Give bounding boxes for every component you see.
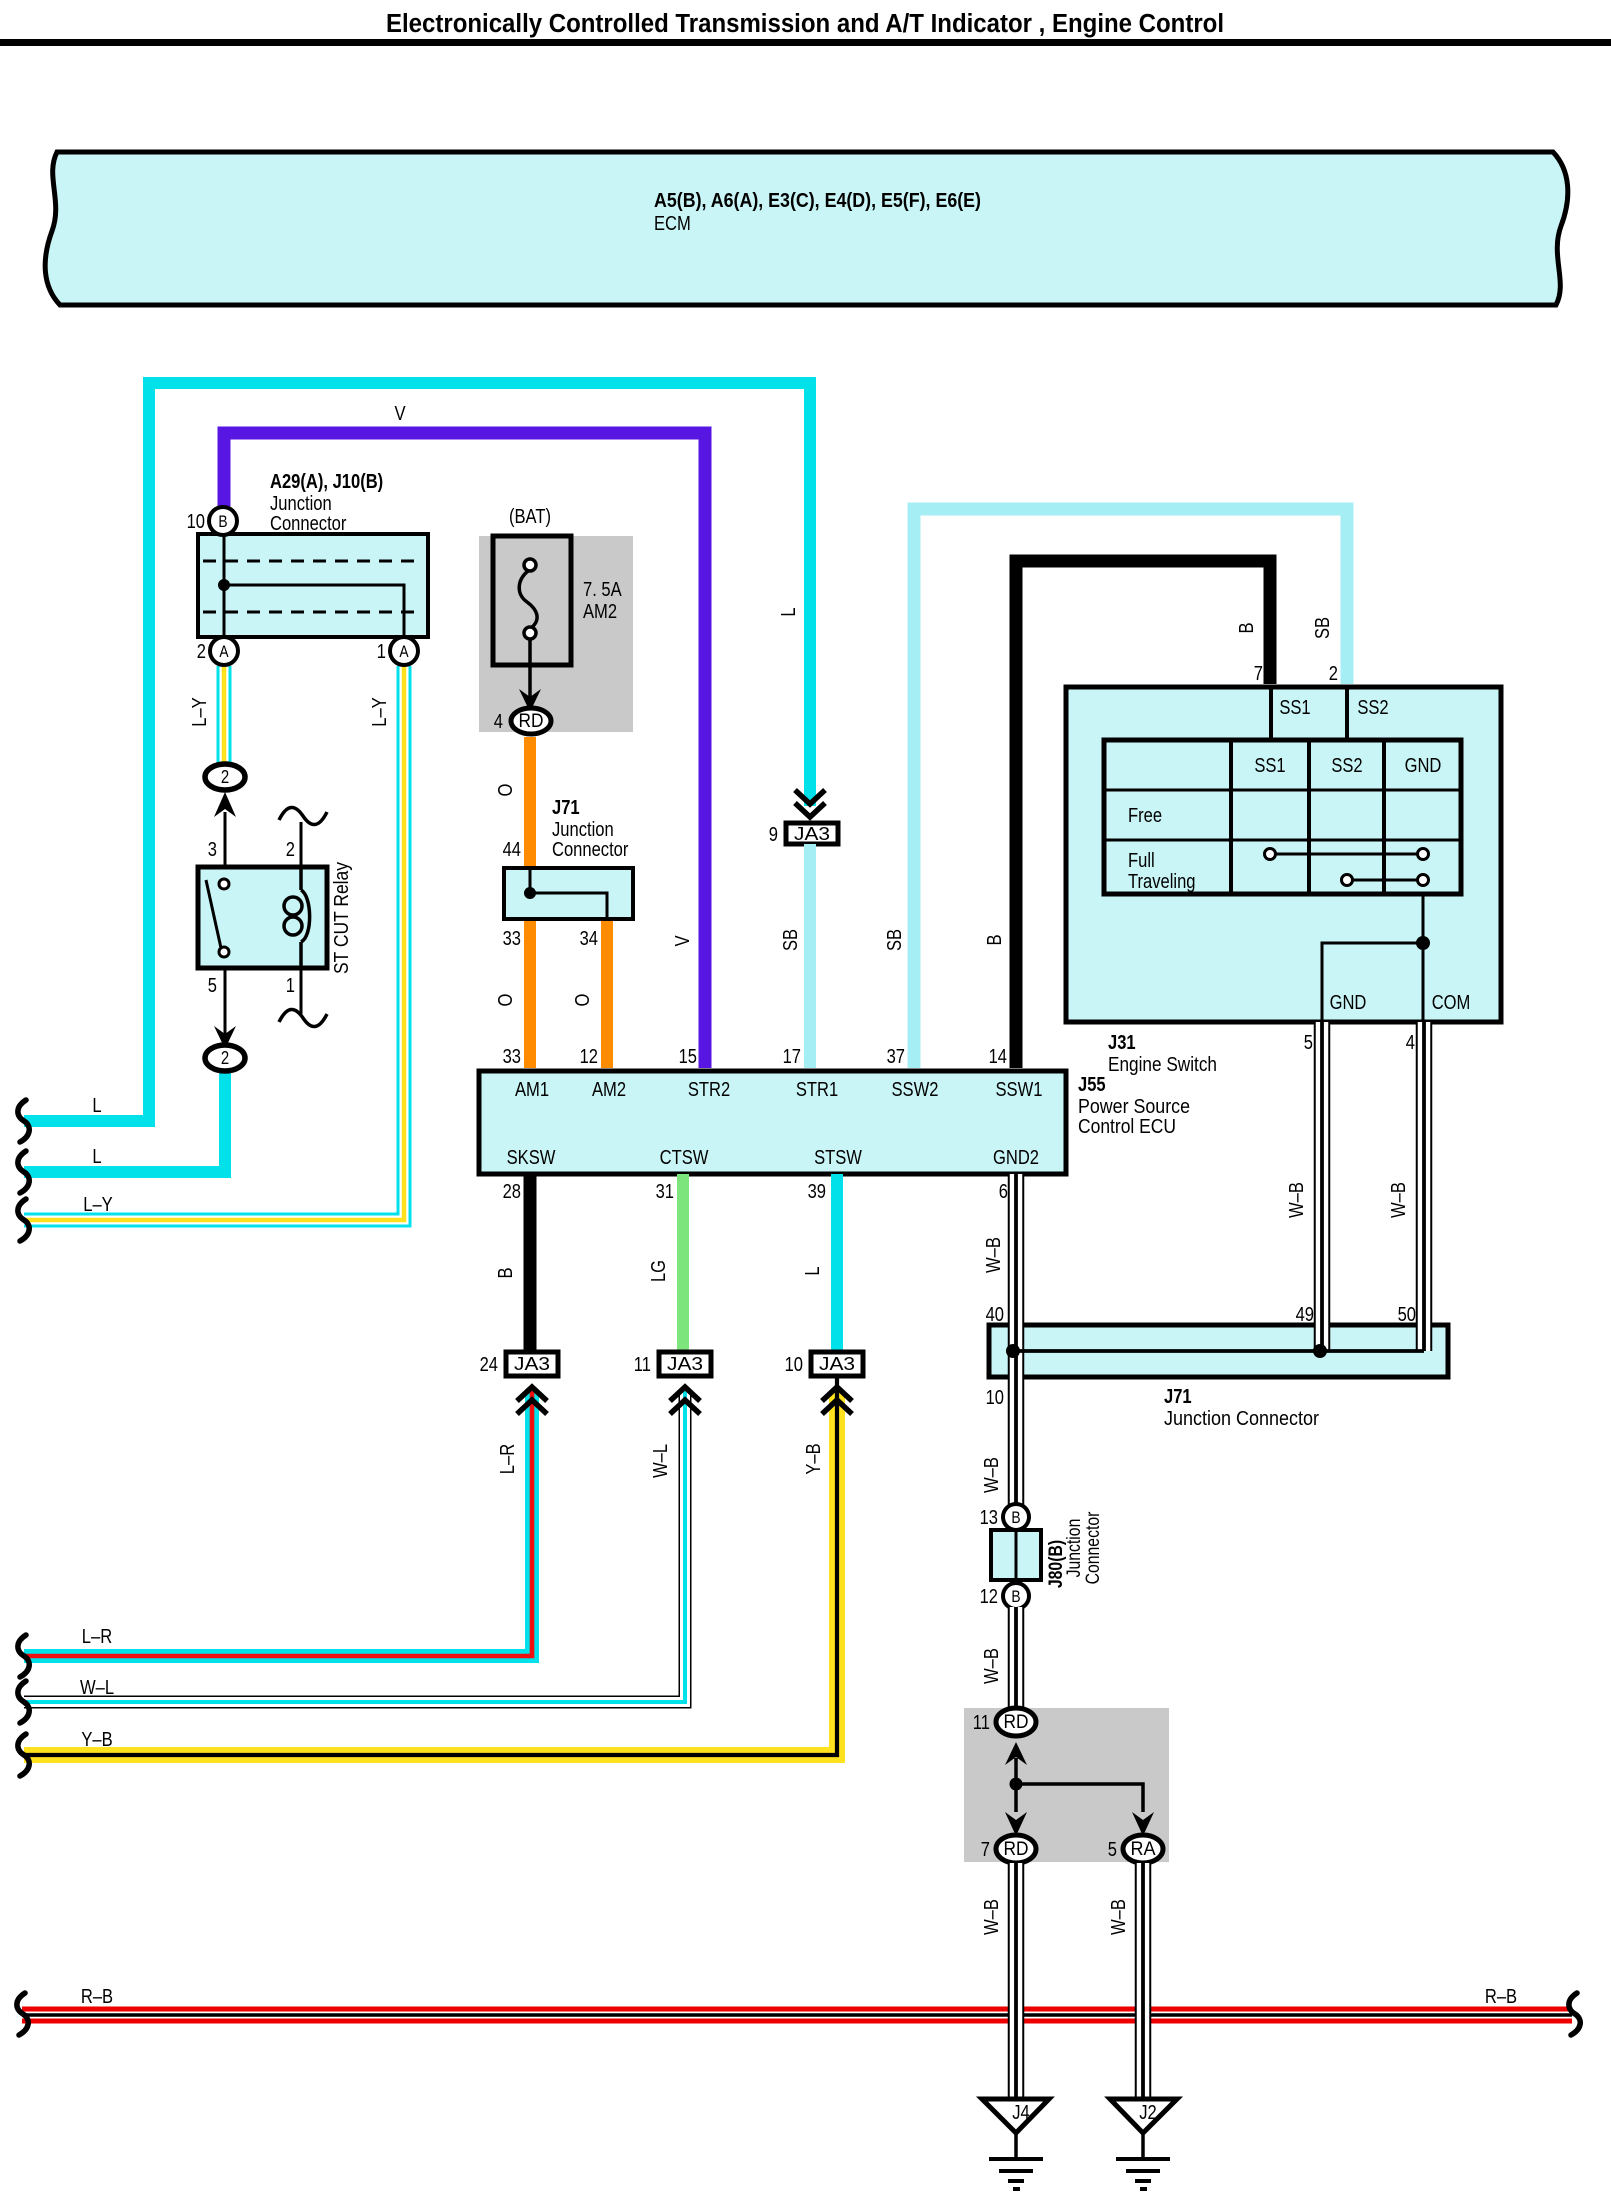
title [0, 10, 1611, 46]
svg-text:J2: J2 [1139, 2101, 1157, 2124]
svg-text:L: L [92, 1094, 101, 1117]
svg-text:L: L [92, 1145, 101, 1168]
svg-text:W–B: W–B [980, 1648, 1003, 1684]
arrow up to RD 11 [1005, 1742, 1027, 1765]
svg-text:RA: RA [1131, 1838, 1156, 1860]
svg-text:3: 3 [208, 838, 217, 861]
svg-text:5: 5 [1108, 1838, 1117, 1861]
svg-text:R–B: R–B [81, 1985, 113, 2008]
svg-text:Connector: Connector [270, 512, 347, 535]
svg-text:SS2: SS2 [1357, 696, 1388, 719]
svg-text:L–R: L–R [82, 1625, 112, 1648]
svg-text:W–B: W–B [1387, 1182, 1410, 1218]
svg-text:W–B: W–B [1107, 1899, 1130, 1935]
svg-text:2: 2 [286, 838, 295, 861]
svg-text:15: 15 [679, 1045, 697, 1068]
wire B black from SSW1 to engine switch SS1 [983, 561, 1270, 1068]
svg-text:J31: J31 [1108, 1031, 1136, 1054]
svg-text:14: 14 [989, 1045, 1007, 1068]
connector 13 B [980, 1504, 1029, 1530]
svg-text:39: 39 [808, 1180, 826, 1203]
connector 9 JA3 [769, 607, 838, 846]
tilde squiggle relay pin 2 [279, 807, 327, 824]
connector 5 RA [1108, 1835, 1163, 1863]
svg-text:44: 44 [503, 838, 521, 861]
fuse AM2 grey block [479, 536, 633, 732]
ground J4 [982, 2099, 1049, 2189]
svg-text:B: B [983, 934, 1006, 945]
left edge squiggle for L upper [18, 1100, 29, 1142]
junction connector J71 upper [503, 796, 633, 950]
svg-text:L: L [777, 607, 800, 616]
svg-text:12: 12 [980, 1585, 998, 1608]
left edge squiggle for R-B [17, 1993, 28, 2035]
svg-text:J4: J4 [1012, 2101, 1030, 2124]
svg-text:B: B [1235, 622, 1258, 633]
svg-text:SKSW: SKSW [507, 1146, 556, 1169]
svg-text:Control ECU: Control ECU [1078, 1115, 1176, 1138]
svg-text:Electronically Controlled Tran: Electronically Controlled Transmission a… [386, 10, 1224, 38]
svg-text:SB: SB [883, 929, 906, 951]
svg-text:SB: SB [779, 929, 802, 951]
svg-text:GND2: GND2 [993, 1146, 1039, 1169]
wire O orange from RD to J71 [494, 737, 530, 870]
svg-text:(BAT): (BAT) [509, 505, 551, 528]
wire W-B from RA 5 to ground J2 [1107, 1863, 1143, 2099]
svg-text:ST CUT Relay: ST CUT Relay [330, 861, 353, 974]
svg-text:A: A [399, 642, 409, 661]
svg-text:7: 7 [1254, 662, 1263, 685]
svg-text:STR2: STR2 [688, 1078, 730, 1101]
svg-text:Free: Free [1128, 804, 1162, 827]
svg-text:50: 50 [1398, 1303, 1416, 1326]
svg-text:11: 11 [973, 1711, 990, 1734]
arrow up to JA3 10 [822, 1387, 852, 1414]
arrow down to JA3 [795, 790, 825, 817]
svg-text:Junction Connector: Junction Connector [1164, 1407, 1319, 1430]
svg-text:L–R: L–R [496, 1444, 519, 1474]
wire V purple [224, 402, 705, 1068]
wire R-B bus bottom [22, 1985, 1572, 2021]
left edge squiggle for Y-B [18, 1734, 29, 1776]
svg-text:31: 31 [656, 1180, 674, 1203]
wire W-L to left edge [24, 1390, 685, 1702]
wire relay pin 2 [300, 822, 303, 867]
wire O orange AM1 from J71 to J55 [494, 918, 530, 1068]
wire W-B from engine switch COM to J71 pin 50 [1387, 1022, 1424, 1351]
svg-text:A5(B), A6(A), E3(C), E4(D), E5: A5(B), A6(A), E3(C), E4(D), E5(F), E6(E) [654, 189, 981, 212]
svg-text:37: 37 [887, 1045, 905, 1068]
svg-text:JA3: JA3 [819, 1353, 855, 1374]
branch wires in grey block [1010, 1758, 1144, 1812]
svg-text:V: V [671, 935, 694, 946]
svg-text:24: 24 [480, 1353, 498, 1376]
svg-text:RD: RD [1004, 1711, 1029, 1733]
svg-text:J55: J55 [1078, 1073, 1106, 1096]
engine switch contact table [1104, 740, 1461, 894]
svg-text:Connector: Connector [1082, 1511, 1104, 1584]
svg-text:2: 2 [197, 640, 206, 663]
grey block lower [964, 1708, 1169, 1862]
svg-text:2: 2 [221, 1047, 229, 1068]
connector 11 RD [973, 1708, 1036, 1736]
ground J2 [1110, 2099, 1177, 2189]
junction connector J80(B) [991, 1511, 1104, 1588]
svg-text:O: O [571, 994, 594, 1007]
arrow up to connector 2 [214, 792, 236, 817]
svg-text:5: 5 [1304, 1031, 1313, 1054]
connector 11 JA3 [634, 1352, 711, 1376]
svg-text:B: B [1011, 1508, 1020, 1527]
arrow down from relay [214, 1026, 236, 1049]
svg-text:7: 7 [981, 1838, 990, 1861]
ECM connector band A5/A6/E3/E4/E5/E6 [45, 152, 1568, 305]
svg-text:10: 10 [986, 1386, 1004, 1409]
svg-text:RD: RD [1004, 1838, 1029, 1860]
svg-text:6: 6 [999, 1180, 1008, 1203]
arrow down to RA 5 [1132, 1812, 1154, 1836]
wire SB from SSW2 to engine switch SS2 [883, 509, 1347, 1068]
wire O orange AM2 from J71 to J55 [571, 918, 607, 1068]
svg-text:1: 1 [377, 640, 386, 663]
svg-text:2: 2 [1329, 662, 1338, 685]
svg-text:SS1: SS1 [1279, 696, 1310, 719]
left edge squiggle for L-Y [18, 1199, 29, 1241]
wire W-B from engine switch GND to J71 pin 49 [1285, 1022, 1322, 1351]
svg-text:Connector: Connector [552, 838, 629, 861]
svg-text:4: 4 [494, 710, 503, 733]
svg-text:SB: SB [1311, 617, 1334, 639]
svg-text:O: O [494, 994, 517, 1007]
svg-text:34: 34 [580, 927, 598, 950]
wire from fuse to RD [528, 640, 532, 704]
svg-text:GND: GND [1330, 991, 1367, 1014]
connector 10 JA3 [785, 1352, 863, 1376]
svg-text:W–B: W–B [980, 1899, 1003, 1935]
svg-text:JA3: JA3 [667, 1353, 703, 1374]
svg-text:J71: J71 [552, 796, 580, 819]
svg-text:W–L: W–L [80, 1676, 114, 1699]
svg-text:10: 10 [187, 510, 205, 533]
wire L-Y from junction connector pin 1 to left edge [24, 666, 404, 1220]
connector 12 B [980, 1583, 1029, 1609]
svg-text:1: 1 [286, 974, 295, 997]
left edge squiggle for L lower [18, 1151, 29, 1193]
wire L cyan from ST CUT relay to left edge [24, 1069, 225, 1172]
wire L-R to left edge [24, 1390, 532, 1656]
arrow down to RD 7 [1005, 1812, 1027, 1836]
svg-text:L–Y: L–Y [368, 697, 391, 727]
wire LG green CTSW to JA3 [647, 1174, 683, 1352]
svg-text:SSW1: SSW1 [996, 1078, 1043, 1101]
svg-text:40: 40 [986, 1303, 1004, 1326]
svg-text:10: 10 [785, 1353, 803, 1376]
svg-text:Traveling: Traveling [1128, 870, 1196, 893]
arrow up to JA3 11 [670, 1387, 700, 1414]
svg-text:Engine Switch: Engine Switch [1108, 1053, 1217, 1076]
junction connector A29(A), J10(B) [198, 470, 428, 638]
svg-text:28: 28 [503, 1180, 521, 1203]
wire L cyan STSW to JA3 [801, 1174, 837, 1352]
connector 7 RD [981, 1835, 1036, 1863]
connector 2 oval top of relay branch [205, 764, 245, 790]
svg-text:LG: LG [647, 1260, 670, 1282]
svg-text:12: 12 [580, 1045, 598, 1068]
engine switch GND/COM traces [1108, 894, 1470, 1076]
svg-text:7. 5A: 7. 5A [583, 578, 622, 601]
svg-text:Y–B: Y–B [802, 1443, 825, 1474]
svg-text:2: 2 [221, 766, 229, 787]
svg-text:ECM: ECM [654, 212, 691, 235]
svg-text:O: O [494, 784, 517, 797]
wire B black SKSW to JA3 [494, 1174, 530, 1352]
svg-text:B: B [218, 512, 227, 531]
wire relay pin 1 down [300, 968, 303, 1014]
connector 24 JA3 [480, 1352, 558, 1376]
wire to ST CUT relay pin 3 [224, 812, 227, 867]
arrow down to RD [519, 689, 541, 712]
wire Y-B to left edge [24, 1378, 837, 1755]
wire relay pin 5 down [224, 968, 227, 1035]
svg-text:L–Y: L–Y [188, 697, 211, 727]
left edge squiggle for W-L [18, 1681, 29, 1723]
wire L cyan from ECM to JA3 [24, 383, 810, 1121]
svg-text:R–B: R–B [1485, 1985, 1517, 2008]
svg-text:A29(A), J10(B): A29(A), J10(B) [270, 470, 383, 493]
svg-text:W–B: W–B [980, 1457, 1003, 1493]
svg-text:SSW2: SSW2 [892, 1078, 939, 1101]
svg-text:GND: GND [1405, 754, 1442, 777]
svg-text:CTSW: CTSW [660, 1146, 709, 1169]
svg-text:33: 33 [503, 1045, 521, 1068]
J71 internal bus [1006, 1344, 1424, 1358]
svg-text:Full: Full [1128, 849, 1155, 872]
wire W-B from J80 to RD 11 [980, 1607, 1016, 1710]
svg-text:5: 5 [208, 974, 217, 997]
svg-text:SS2: SS2 [1331, 754, 1362, 777]
svg-text:STSW: STSW [814, 1146, 862, 1169]
connector pin 1 A [377, 637, 418, 665]
tilde squiggle relay pin 1 [279, 1009, 327, 1026]
svg-text:COM: COM [1432, 991, 1471, 1014]
svg-text:W–B: W–B [982, 1237, 1005, 1273]
svg-text:RD: RD [519, 710, 544, 732]
svg-text:B: B [1011, 1587, 1020, 1606]
ST CUT relay [198, 838, 353, 997]
wire SB from JA3 to STR1 [779, 844, 810, 1068]
wire L-Y from junction connector pin 2 to relay [188, 666, 224, 765]
svg-text:J71: J71 [1164, 1385, 1192, 1408]
left edge squiggle for L-R [18, 1635, 29, 1677]
J55 power source control ECU [479, 1045, 1190, 1174]
svg-text:AM2: AM2 [583, 600, 617, 623]
svg-text:L–Y: L–Y [83, 1193, 113, 1216]
svg-text:Y–B: Y–B [81, 1728, 112, 1751]
svg-text:L: L [801, 1266, 824, 1275]
fuse 7.5A AM2 [493, 505, 622, 665]
svg-text:JA3: JA3 [794, 823, 830, 844]
svg-text:AM2: AM2 [592, 1078, 626, 1101]
svg-text:V: V [394, 402, 405, 425]
svg-text:SS1: SS1 [1254, 754, 1285, 777]
svg-text:JA3: JA3 [514, 1353, 550, 1374]
svg-text:33: 33 [503, 927, 521, 950]
svg-text:13: 13 [980, 1506, 998, 1529]
svg-text:11: 11 [634, 1353, 651, 1376]
right edge squiggle for R-B [1569, 1993, 1580, 2035]
svg-text:AM1: AM1 [515, 1078, 549, 1101]
wire W-B from RD 7 to ground J4 [980, 1863, 1016, 2099]
svg-text:9: 9 [769, 823, 778, 846]
connector pin 2 A [197, 637, 238, 665]
svg-text:49: 49 [1296, 1303, 1314, 1326]
connector pin 10 B [187, 507, 237, 535]
connector 4 RD [494, 708, 551, 734]
connector 2 oval bottom of relay branch [205, 1045, 245, 1071]
svg-text:W–B: W–B [1285, 1182, 1308, 1218]
wire W-B GND2 from J55 through J71 to J80 [980, 1174, 1016, 1506]
svg-text:A: A [219, 642, 229, 661]
junction connector J71 lower [989, 1325, 1448, 1430]
svg-text:4: 4 [1406, 1031, 1415, 1054]
engine switch J31 box [1066, 687, 1501, 1022]
arrow up to JA3 24 [517, 1387, 547, 1414]
svg-text:B: B [494, 1267, 517, 1278]
svg-text:17: 17 [783, 1045, 801, 1068]
svg-text:STR1: STR1 [796, 1078, 838, 1101]
svg-text:W–L: W–L [649, 1444, 672, 1478]
